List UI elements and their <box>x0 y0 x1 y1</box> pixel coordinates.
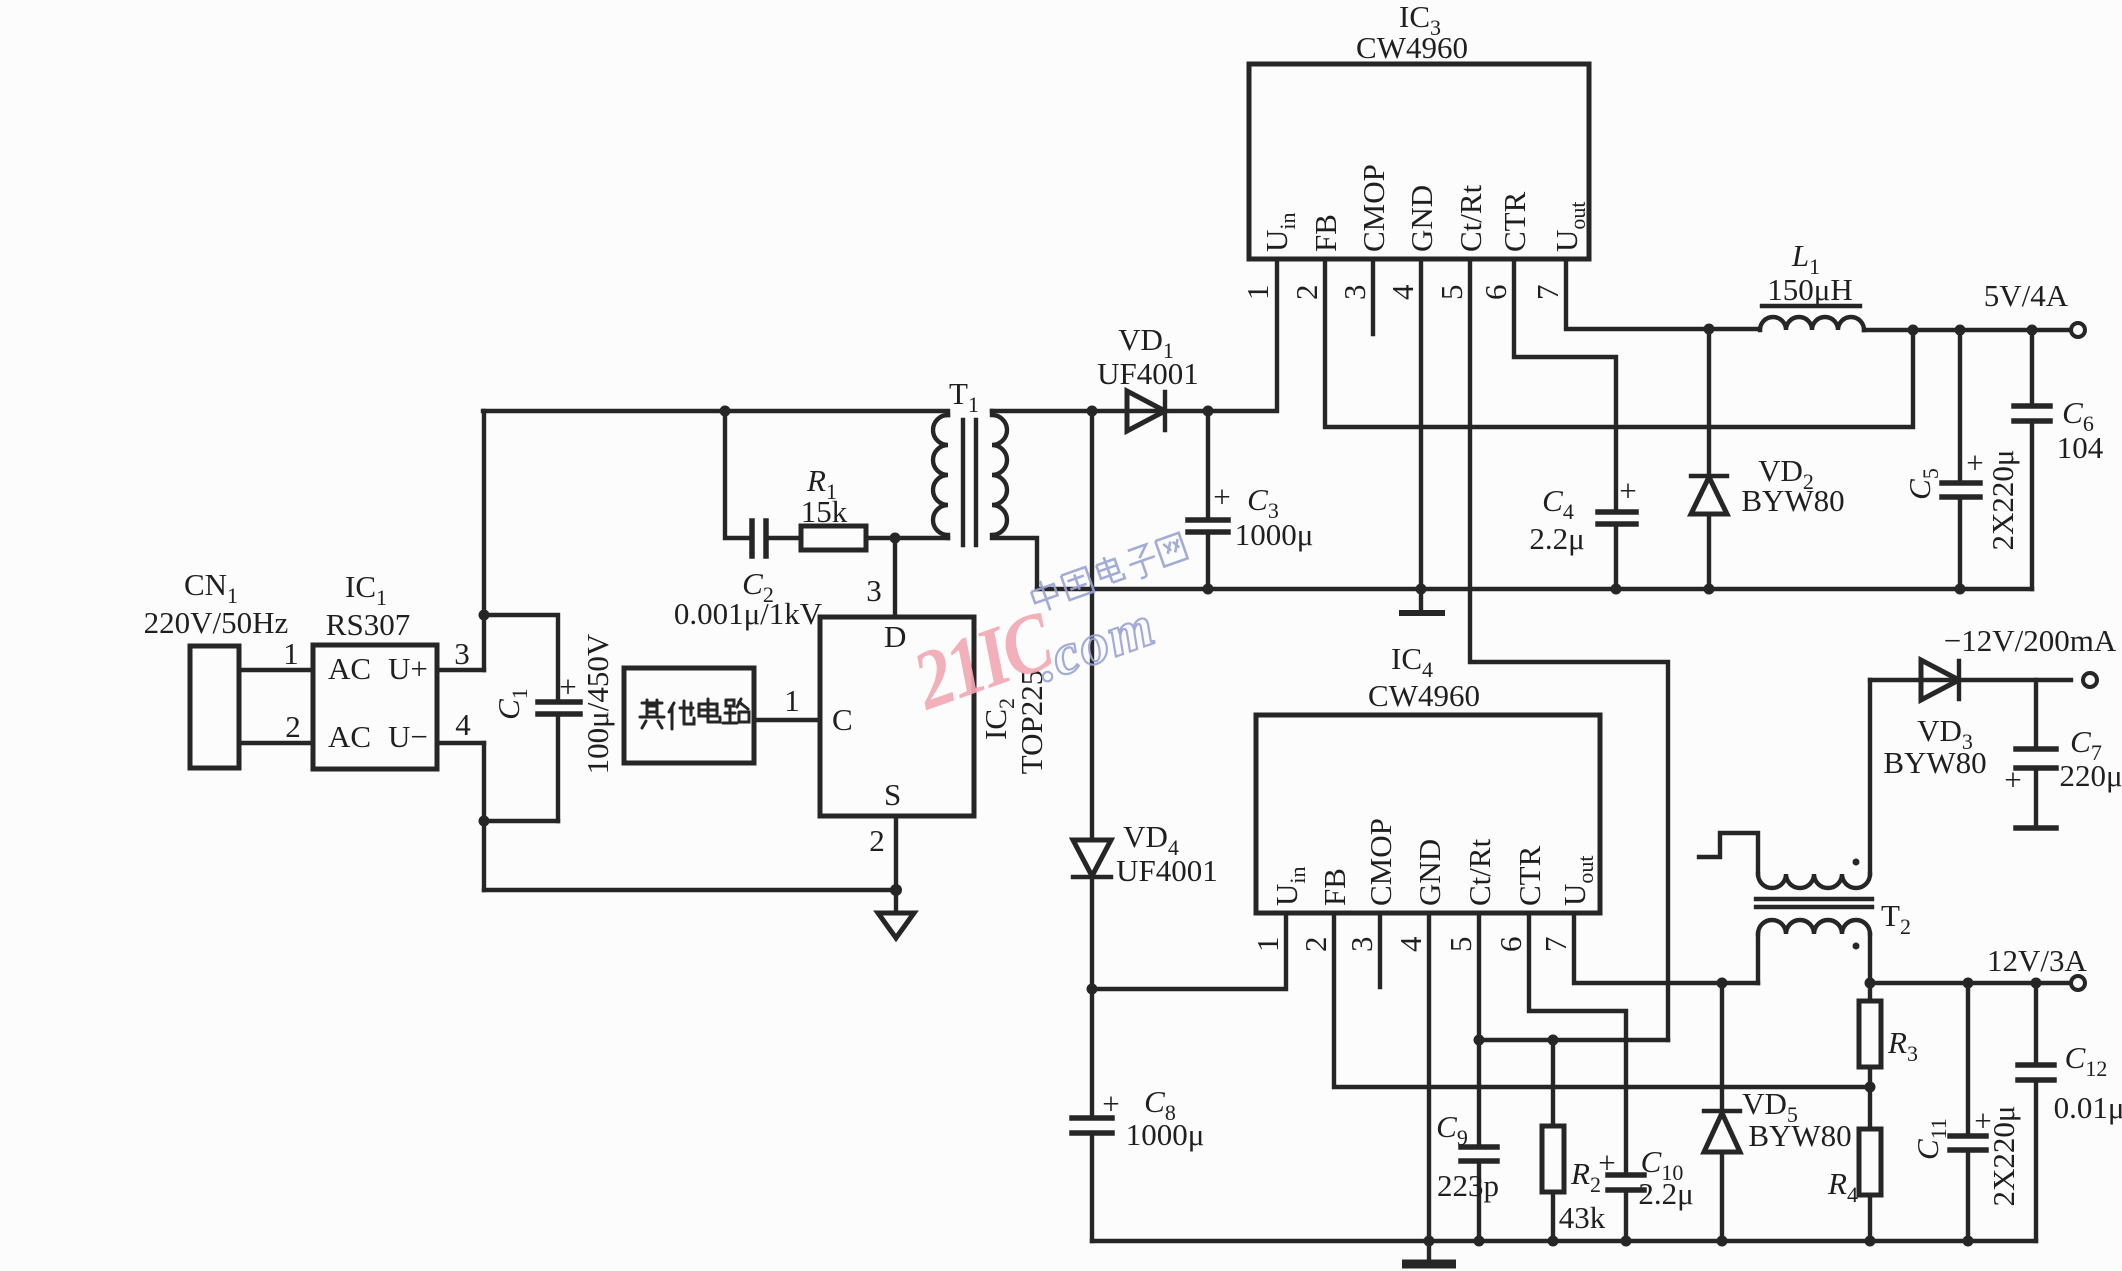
wire IC4 pin5 Ct/Rt <box>1477 913 1481 1147</box>
ground (IC3 GND symbol) <box>1399 589 1445 613</box>
pin number 2 (IC3) <box>1289 285 1324 301</box>
connector CN1 <box>144 567 289 768</box>
node Ct/Rt net junction C9 <box>1474 1035 1669 1046</box>
block box: other circuit (qitadianlu) <box>624 668 754 763</box>
svg-text:3: 3 <box>1344 937 1379 953</box>
svg-text:−12V/200mA: −12V/200mA <box>1944 623 2117 658</box>
svg-text:2.2μ: 2.2μ <box>1529 521 1584 556</box>
resistor R1 15k <box>801 463 948 550</box>
watermark 21IC.com with Chinese site name <box>901 531 1189 728</box>
diode VD1 UF4001 <box>1097 322 1199 431</box>
wire IC3 pin5 Ct/Rt down to sync net <box>1470 259 1668 1040</box>
wire top rail (rectified HV bus) <box>483 411 948 415</box>
node VD4 / C8 / IC4 Uin junction <box>1087 984 1098 995</box>
svg-text:12V/3A: 12V/3A <box>1987 943 2088 978</box>
svg-text:UF4001: UF4001 <box>1097 356 1199 391</box>
svg-text:FB: FB <box>1308 214 1343 252</box>
svg-text:CW4960: CW4960 <box>1356 30 1468 65</box>
node U+ / C1 top junction <box>479 610 559 703</box>
svg-text:AC: AC <box>328 719 371 754</box>
svg-text:CTR: CTR <box>1497 191 1532 252</box>
svg-text:2: 2 <box>1298 937 1333 953</box>
diode VD2 BYW80 freewheel <box>1691 329 1845 595</box>
svg-text:1: 1 <box>1250 937 1285 953</box>
svg-text:C: C <box>832 702 853 737</box>
svg-text:2X220μ: 2X220μ <box>1985 449 2020 550</box>
node C6 top <box>2027 325 2038 336</box>
svg-text:0.01μ: 0.01μ <box>2054 1090 2122 1125</box>
capacitor C6 104 <box>2014 330 2104 589</box>
svg-text:BYW80: BYW80 <box>1748 1118 1851 1153</box>
zi <box>1125 543 1161 581</box>
svg-text:1: 1 <box>1240 285 1275 301</box>
wire IC3 pin2 FB to 5V output sense <box>1325 259 1913 427</box>
wang <box>1155 533 1187 567</box>
svg-text:CW4960: CW4960 <box>1368 678 1480 713</box>
capacitor C12 0.01u <box>2018 978 2122 1242</box>
pin number 7 (IC3) <box>1530 285 1565 301</box>
resistor R2 43k <box>1542 1040 1606 1247</box>
wire other-circuit to TOP225 control pin 1 <box>754 683 820 720</box>
svg-text:223p: 223p <box>1437 1168 1499 1203</box>
wire IC1 pin4 U- output <box>437 707 484 743</box>
svg-text:3: 3 <box>866 573 882 608</box>
svg-text:6: 6 <box>1493 937 1528 953</box>
svg-text:+: + <box>1966 445 1983 480</box>
svg-text:D: D <box>884 619 906 654</box>
node R1 / T1 primary bottom / TOP225 drain junction <box>890 533 901 544</box>
svg-text:7: 7 <box>1530 285 1565 301</box>
svg-text:2: 2 <box>285 709 301 744</box>
svg-text:+: + <box>1619 473 1636 508</box>
node C3 top junction <box>1203 406 1214 417</box>
wire IC3 pin4 GND to rail <box>1416 259 1427 595</box>
transformer T2 core <box>1756 898 1911 939</box>
svg-text:CMOP: CMOP <box>1363 818 1398 906</box>
bridge rectifier IC1 RS307 <box>313 569 437 769</box>
transformer T1 primary winding <box>933 415 948 538</box>
capacitor C7 220u <box>2004 680 2122 828</box>
inductor L1 150uH <box>1760 238 2071 330</box>
svg-text:CTR: CTR <box>1512 845 1547 906</box>
diode VD3 BYW80 <box>1870 660 2071 780</box>
transformer T1 core <box>949 376 979 545</box>
svg-text:1000μ: 1000μ <box>1235 517 1314 552</box>
node C5 top <box>1955 325 1966 336</box>
capacitor C4 2.2u <box>1529 473 1636 595</box>
node FB divider junction <box>1865 1082 1876 1093</box>
guo <box>1061 567 1094 600</box>
wire IC1 pin3 U+ output <box>437 636 484 671</box>
ground (master ground below bottom rail) <box>1402 1241 1456 1264</box>
capacitor C11 2X220u <box>1910 978 2021 1247</box>
pin number 1 (IC3) <box>1240 285 1275 301</box>
pin number 5 (IC3) <box>1434 285 1469 301</box>
svg-text:3: 3 <box>1337 285 1372 301</box>
pin number 7 (IC4) <box>1538 937 1573 953</box>
capacitor C10 2.2u <box>1598 1040 1693 1247</box>
node S junction <box>890 884 902 896</box>
wire secondary ground rail (5V section) <box>1037 587 2032 591</box>
svg-text:2: 2 <box>1289 285 1324 301</box>
pin number 3 (IC4) <box>1344 937 1379 953</box>
svg-text:4: 4 <box>1385 284 1420 300</box>
svg-text:104: 104 <box>2057 430 2104 465</box>
svg-text:FB: FB <box>1317 868 1352 906</box>
svg-text:2: 2 <box>869 823 885 858</box>
svg-text:U−: U− <box>388 719 428 754</box>
svg-text:7: 7 <box>1538 937 1573 953</box>
svg-text:150μH: 150μH <box>1767 272 1853 307</box>
svg-text:+: + <box>1598 1145 1615 1180</box>
capacitor C9 223p <box>1436 1109 1499 1247</box>
terminal -12V/200mA output <box>1944 623 2117 687</box>
pin number 4 (IC3) <box>1385 284 1420 300</box>
regulator IC3 CW4960 <box>1249 0 1590 259</box>
zhong <box>1029 577 1062 614</box>
switching IC2 TOP225 <box>820 617 1049 816</box>
svg-text:4: 4 <box>455 707 471 742</box>
svg-text:1000μ: 1000μ <box>1126 1117 1205 1152</box>
pin number 6 (IC4) <box>1493 937 1528 953</box>
node C3 bottom on rail <box>1203 584 1214 595</box>
terminal 12V/3A output <box>1987 943 2088 990</box>
svg-text:Ct/Rt: Ct/Rt <box>1462 838 1497 906</box>
resistor R3 <box>1859 983 1918 1087</box>
svg-text:Ct/Rt: Ct/Rt <box>1453 184 1488 252</box>
wire T1 secondary top to IC3 Uin <box>992 259 1277 411</box>
wire bottom ground rail <box>1092 1239 2036 1243</box>
capacitor C2 0.001u/1kV <box>674 521 823 631</box>
svg-text:BYW80: BYW80 <box>1741 483 1844 518</box>
wire 12V rail right section <box>1870 981 2071 985</box>
dian <box>1094 553 1124 586</box>
svg-text:0.001μ/1kV: 0.001μ/1kV <box>674 596 823 631</box>
wire IC4 pin4 GND to bottom rail <box>1424 913 1435 1247</box>
pin number 4 (IC4) <box>1393 936 1428 952</box>
terminal 5V/4A output <box>1984 278 2085 337</box>
wire IC4 pin6 CTR to Ct/Rt net <box>1529 913 1626 1040</box>
svg-text:3: 3 <box>454 636 470 671</box>
wire IC3 pin6 CTR to C4 <box>1514 259 1616 512</box>
transformer T2 primary winding with stub <box>1699 680 1870 888</box>
svg-text:5: 5 <box>1434 285 1469 301</box>
wire TOP225 drain (pin 3) <box>866 538 895 617</box>
svg-text:+: + <box>1102 1086 1119 1121</box>
wire IC3 pin7 Uout to switch node <box>1566 259 1709 329</box>
svg-text:1: 1 <box>283 636 299 671</box>
svg-text:220V/50Hz: 220V/50Hz <box>144 605 289 640</box>
pin number 3 (IC3) <box>1337 285 1372 301</box>
pin number 2 (IC4) <box>1298 937 1333 953</box>
svg-text:5V/4A: 5V/4A <box>1984 278 2069 313</box>
capacitor C5 2X220u <box>1902 330 2020 595</box>
wire CN1 pin1 to IC1 AC <box>239 636 313 671</box>
node R3 top on 12V rail <box>1865 978 1876 989</box>
svg-text:2X220μ: 2X220μ <box>1986 1105 2021 1206</box>
svg-text:15k: 15k <box>801 494 848 529</box>
svg-text:+: + <box>2004 762 2021 797</box>
svg-text:BYW80: BYW80 <box>1883 745 1986 780</box>
svg-text:43k: 43k <box>1559 1200 1606 1235</box>
wire IC3 pin3 CMOP stub <box>1371 259 1375 334</box>
wire IC4 pin2 FB to R3/R4 divider <box>1334 913 1870 1087</box>
svg-text:UF4001: UF4001 <box>1116 853 1218 888</box>
pin number 1 (IC4) <box>1250 937 1285 953</box>
capacitor C1 100u/450V <box>491 633 615 821</box>
pin number 6 (IC3) <box>1478 285 1513 301</box>
ground (primary, below TOP225 S pin) <box>878 890 914 938</box>
node switch node junction (VD2 top) <box>1704 324 1761 335</box>
wire IC4 pin3 CMOP stub <box>1378 913 1382 987</box>
svg-text:GND: GND <box>1404 185 1439 252</box>
wire U+ riser to top rail <box>482 411 486 670</box>
svg-text:1: 1 <box>784 683 800 718</box>
regulator IC4 CW4960 <box>1256 641 1600 913</box>
node VD5 tap on 12V rail <box>1717 978 1728 989</box>
svg-text:RS307: RS307 <box>326 607 410 642</box>
capacitor C8 1000u <box>1072 989 1204 1241</box>
svg-text:6: 6 <box>1478 285 1513 301</box>
resistor R4 <box>1827 1087 1881 1247</box>
svg-text:+: + <box>1213 479 1230 514</box>
capacitor C3 1000u <box>1188 411 1313 589</box>
diode VD5 BYW80 freewheel <box>1704 983 1852 1247</box>
pin number 5 (IC4) <box>1443 937 1478 953</box>
transformer T1 secondary winding <box>992 411 1037 589</box>
node VD4 tap on secondary top wire <box>1087 406 1098 417</box>
wire TOP225 source (pin 2) to ground net <box>869 816 896 890</box>
node R2 tap on Ct/Rt net <box>1548 1035 1559 1046</box>
svg-text:CMOP: CMOP <box>1356 164 1391 252</box>
svg-text:2.2μ: 2.2μ <box>1638 1176 1693 1211</box>
svg-text:5: 5 <box>1443 937 1478 953</box>
node snubber junction on top rail <box>720 406 753 539</box>
transformer T2 secondary winding (series in 12V rail) <box>1758 920 1870 983</box>
node FB tap after L1 <box>1908 325 1919 336</box>
svg-text:GND: GND <box>1412 839 1447 906</box>
svg-text:4: 4 <box>1393 936 1428 952</box>
diode VD4 UF4001 <box>1073 411 1218 989</box>
svg-text:+: + <box>559 669 576 704</box>
svg-text:AC: AC <box>328 651 371 686</box>
wire primary ground return (S net) <box>484 888 896 892</box>
wire IC4 pin1 Uin <box>1092 913 1286 989</box>
svg-text:S: S <box>884 777 901 812</box>
wire CN1 pin2 to IC1 AC <box>239 709 313 744</box>
wire IC4 pin7 Uout to 12V rail <box>1574 913 1758 983</box>
svg-text:U+: U+ <box>388 651 428 686</box>
svg-text:220μ: 220μ <box>2059 758 2122 793</box>
svg-text:100μ/450V: 100μ/450V <box>580 633 615 774</box>
node U- / C1 bottom junction <box>479 743 559 890</box>
